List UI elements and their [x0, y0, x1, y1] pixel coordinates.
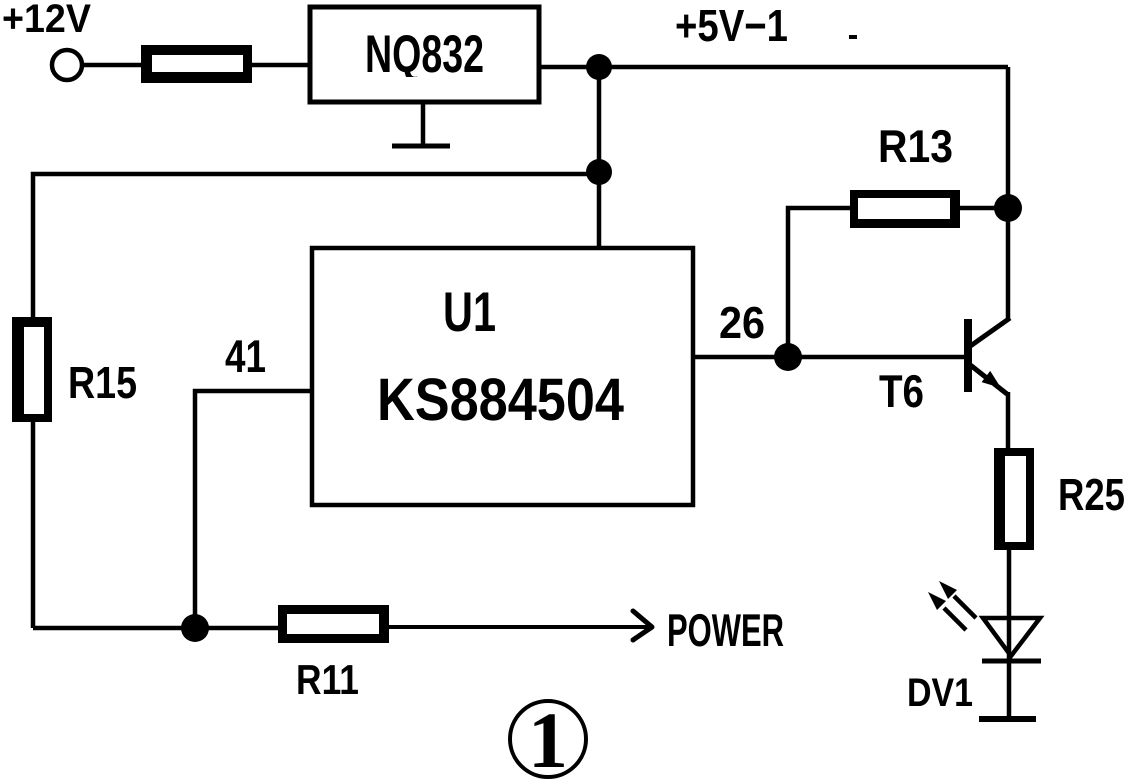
transistor T6	[964, 318, 1010, 394]
terminal (input circle)	[52, 50, 82, 80]
ground (under NQ832)	[392, 102, 450, 146]
svg-text:NQ832: NQ832	[365, 25, 484, 84]
LED DV1 (triangle)	[983, 618, 1040, 656]
wire +5V-1 top rail	[539, 65, 1008, 70]
resistor F1 (series fuse/resistor)	[141, 45, 252, 83]
IC U1 KS884504	[312, 248, 693, 505]
junction (branch to left rail)	[586, 159, 612, 185]
junction (NQ832 output)	[586, 54, 612, 80]
svg-text:+12V: +12V	[2, 0, 91, 41]
svg-text:DV1: DV1	[907, 671, 973, 715]
resistor R25	[994, 448, 1034, 550]
svg-text:U1: U1	[443, 280, 496, 343]
light arrow B	[939, 581, 976, 618]
svg-text:R13: R13	[878, 120, 953, 172]
wire (left rail: across and down)	[33, 174, 599, 628]
svg-text:POWER: POWER	[667, 604, 784, 656]
wire (emitter down)	[1006, 392, 1011, 456]
speck	[849, 35, 857, 39]
svg-text:R15: R15	[68, 357, 137, 408]
wire	[82, 63, 146, 68]
wire (down to U1)	[597, 67, 602, 249]
wire (bottom run)	[33, 626, 280, 631]
figure number 1 (circled)	[510, 697, 586, 780]
svg-text:KS884504: KS884504	[377, 366, 625, 433]
wire pin 26	[693, 355, 966, 360]
regulator NQ832	[310, 7, 539, 102]
wire pin 41	[195, 391, 313, 628]
resistor R11	[278, 605, 389, 643]
svg-text:26: 26	[719, 297, 765, 348]
svg-text:R25: R25	[1058, 469, 1125, 520]
wire right rail	[1006, 67, 1011, 320]
arrow head POWER	[633, 611, 652, 640]
svg-text:+5V−1: +5V−1	[675, 0, 788, 51]
light arrow A	[928, 592, 966, 630]
junction (pin41 / bottom)	[181, 614, 209, 642]
wire (R13 to rail)	[960, 206, 1008, 211]
wire (through LED to ground)	[1007, 550, 1012, 719]
resistor R13	[850, 190, 960, 228]
svg-text:1: 1	[528, 697, 568, 780]
svg-text:T6: T6	[879, 365, 924, 417]
svg-text:41: 41	[225, 330, 266, 382]
wire	[252, 63, 310, 68]
cathode bar	[982, 659, 1041, 664]
junction (base node)	[774, 343, 802, 371]
wire (to POWER arrow)	[389, 625, 648, 629]
svg-text:R11: R11	[296, 656, 359, 703]
wire (up to R13)	[788, 208, 850, 357]
ground (below LED)	[979, 716, 1036, 722]
junction (collector node on rail)	[994, 194, 1022, 222]
resistor R15	[12, 317, 52, 422]
